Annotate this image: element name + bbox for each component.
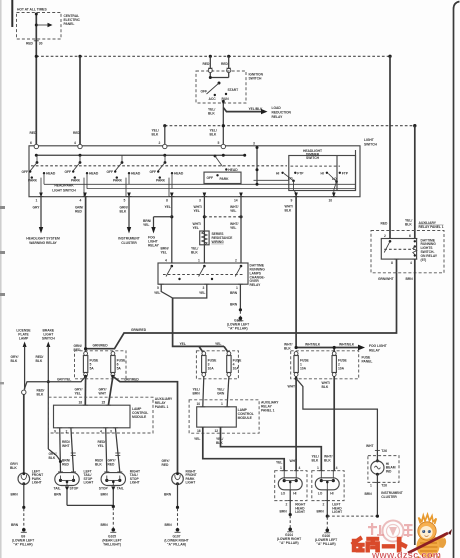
terminal 30 tick and RED label <box>26 41 43 46</box>
svg-text:YEL: YEL <box>180 342 186 346</box>
svg-text:TAILLIGHT): TAILLIGHT) <box>103 542 121 546</box>
switch S4 (OFF/PARK/HEAD) <box>150 155 184 196</box>
wire: GRN/BLK to instrument cluster <box>120 197 132 234</box>
relay pin 4 <box>410 259 417 265</box>
svg-text:RED: RED <box>221 62 229 66</box>
svg-text:PANEL: PANEL <box>362 360 373 364</box>
relay pin 6 <box>409 234 417 239</box>
fuse 3 (left low beam) <box>202 352 218 377</box>
svg-text:LIGHT: LIGHT <box>332 510 342 514</box>
svg-text:BLK: BLK <box>120 210 127 214</box>
svg-text:8: 8 <box>391 261 393 265</box>
left headlight bulb <box>315 466 339 496</box>
watermark: pink overlay characters <box>368 523 413 537</box>
svg-text:1: 1 <box>280 466 282 470</box>
svg-text:RELAY: RELAY <box>272 115 284 119</box>
svg-text:RED: RED <box>26 41 34 45</box>
fuse 6 (right tail) <box>111 352 126 377</box>
svg-text:3: 3 <box>253 142 255 146</box>
svg-text:2: 2 <box>66 430 68 434</box>
svg-text:RELAY: RELAY <box>148 244 160 248</box>
switch S2 (OFF/PARK/HEAD) <box>65 155 99 196</box>
watermark: www.dzsc.com <box>371 550 441 558</box>
fuse panel right dashed box <box>291 351 359 379</box>
svg-text:LIGHT: LIGHT <box>32 481 42 485</box>
svg-text:"A" PILLAR): "A" PILLAR) <box>279 541 298 545</box>
svg-text:10A: 10A <box>338 367 345 371</box>
DRL changeover relay internals <box>163 265 243 280</box>
svg-text:GRY/RED: GRY/RED <box>124 377 139 381</box>
label: IGNITION SWITCH <box>249 73 264 81</box>
svg-text:"A" PILLAR): "A" PILLAR) <box>228 327 247 331</box>
label: INSTRUMENT CLUSTER left <box>118 237 139 246</box>
svg-text:LIGHT: LIGHT <box>295 510 305 514</box>
svg-text:HEAD: HEAD <box>174 172 184 176</box>
wire: right page-edge wire <box>454 2 460 558</box>
svg-text:3: 3 <box>110 430 112 434</box>
ignition switch dashed box <box>196 71 246 103</box>
svg-text:SWITCH: SWITCH <box>306 156 320 160</box>
svg-text:1: 1 <box>221 402 223 406</box>
label: DAYTIME RUNNING LAMPS CHANGE-OVER RELAY <box>250 264 266 287</box>
svg-text:6: 6 <box>409 234 411 238</box>
label: AUXILIARY RELAY PANEL 1 top <box>419 221 444 229</box>
lamp control module left box <box>54 405 131 428</box>
svg-text:2: 2 <box>286 502 288 506</box>
label: AUXILIARY RELAY PANEL 1 right <box>261 400 279 412</box>
wire: branch to fog light relay <box>143 217 172 234</box>
lamp: right front park light <box>164 469 197 507</box>
svg-text:BLK: BLK <box>324 459 331 463</box>
svg-text:(97): (97) <box>421 258 427 262</box>
svg-text:BRN: BRN <box>365 492 373 496</box>
svg-text:LIGHT: LIGHT <box>84 481 94 485</box>
label: LIGHT SWITCH <box>364 138 378 146</box>
label: RIGHT HEAD LIGHT <box>295 503 305 515</box>
daytime running lights switch-on relay box <box>381 239 416 260</box>
svg-text:10: 10 <box>329 198 333 202</box>
svg-text:BRN: BRN <box>280 510 288 514</box>
wire: YEL/BLK long feed to DRL relay <box>405 126 415 239</box>
dashed ground link headlight to cluster <box>327 515 379 518</box>
svg-text:5A: 5A <box>117 367 122 371</box>
svg-text:FOG LIGHT: FOG LIGHT <box>369 344 387 348</box>
watermark: 维库一下 <box>352 537 407 552</box>
terminal circles on box top <box>30 141 226 149</box>
label: G9 lower left A pillar <box>12 534 34 546</box>
svg-text:16: 16 <box>197 429 201 433</box>
wire: WHT hi-beam indicator feed label T26 <box>366 444 387 453</box>
wire: tail lamps ground bus <box>67 505 116 532</box>
svg-text:BLK: BLK <box>37 392 44 396</box>
svg-text:YEL: YEL <box>194 437 200 441</box>
svg-text:BRN: BRN <box>54 492 62 496</box>
svg-text:5: 5 <box>218 141 220 145</box>
wire: branch to hi-beam indicator <box>296 379 377 451</box>
ignition switch internals <box>201 73 239 106</box>
label: FOG LIGHT RELAY left <box>148 236 160 248</box>
svg-text:RELAY PANEL 1: RELAY PANEL 1 <box>419 225 444 229</box>
svg-text:6: 6 <box>30 141 32 145</box>
resistor: series resistance wiring <box>200 231 209 245</box>
svg-text:WHT: WHT <box>366 444 373 448</box>
svg-text:MODULE: MODULE <box>238 416 253 420</box>
svg-text:RED: RED <box>62 462 70 466</box>
svg-text:LOAD: LOAD <box>272 106 282 110</box>
dimmer pole 2 <box>321 171 349 196</box>
wire labels at headlight HI terminals <box>290 455 333 463</box>
label: G100 lower left A pillar <box>227 319 249 331</box>
wire: RED feed to switch terminal 6 <box>30 56 81 146</box>
wire: YEL/BLK from RUN terminal <box>208 103 223 147</box>
switch S3 (OFF/PARK/HEAD) <box>107 155 141 196</box>
lamp control module right dashed panel <box>189 400 259 433</box>
svg-text:BRN: BRN <box>165 523 173 527</box>
svg-text:STOP: STOP <box>99 487 109 491</box>
svg-text:2: 2 <box>323 502 325 506</box>
right headlight dashed box <box>275 471 307 501</box>
svg-text:BRN: BRN <box>164 492 172 496</box>
svg-text:PARK: PARK <box>71 179 81 183</box>
wire: YEL module to right headlight LO <box>194 427 284 471</box>
lamp control module right box <box>197 407 237 427</box>
label: BRAKE LIGHT SWITCH <box>42 329 56 341</box>
label: G104 lower right A pillar <box>277 533 301 545</box>
svg-text:BRN: BRN <box>230 291 238 295</box>
wire: GRN/WHT relay output to light circuit <box>378 259 397 281</box>
svg-text:MODULE: MODULE <box>132 415 147 419</box>
svg-text:14: 14 <box>234 198 238 202</box>
svg-text:2: 2 <box>159 141 161 145</box>
wire: YEL/BLK drop to switch terminal <box>152 126 217 144</box>
svg-text:RED: RED <box>75 210 83 214</box>
svg-text:1: 1 <box>317 466 319 470</box>
svg-text:LIGHT: LIGHT <box>186 481 196 485</box>
svg-text:BRN: BRN <box>101 492 109 496</box>
svg-text:HI: HI <box>321 171 324 175</box>
svg-text:"A" PILLAR): "A" PILLAR) <box>316 542 335 546</box>
right headlight bulb <box>278 466 302 496</box>
wire: WHT from fuse 1 to right headlight HI <box>288 376 298 470</box>
svg-text:30: 30 <box>39 41 43 45</box>
label: G105 rear left taillight <box>102 534 121 546</box>
DRL changeover relay pin numbers top <box>165 259 244 264</box>
svg-text:TAIL: TAIL <box>117 487 124 491</box>
svg-text:RED: RED <box>30 131 38 135</box>
svg-text:GRN/RED: GRN/RED <box>131 328 147 332</box>
svg-text:CLUSTER: CLUSTER <box>121 241 137 245</box>
wire: GRY/YEL fuse5 to lamp module <box>75 376 86 405</box>
label: G107 lower right A pillar <box>164 534 188 546</box>
fuse 4 (right low beam) <box>227 352 242 377</box>
svg-text:1: 1 <box>370 484 372 488</box>
svg-text:PARK: PARK <box>113 179 123 183</box>
wire: heavy arrow to load reduction relay <box>223 107 267 115</box>
svg-text:LIGHT: LIGHT <box>364 138 374 142</box>
svg-text:WHT: WHT <box>99 392 106 396</box>
label: HEADLIGHT SYSTEM WARNING RELAY <box>26 237 60 246</box>
relay pin 2 <box>384 234 393 239</box>
label: LAMP CONTROL MODULE right <box>238 408 254 420</box>
svg-text:FTP: FTP <box>342 171 349 175</box>
label: AUXILIARY RELAY PANEL 1 left <box>155 397 173 409</box>
svg-text:BLK: BLK <box>405 223 412 227</box>
svg-text:T26: T26 <box>381 484 387 488</box>
svg-text:YEL: YEL <box>193 226 199 230</box>
svg-text:4: 4 <box>80 198 82 202</box>
label: DAYTIME RUNNING LIGHTS SWITCH-ON RELAY (97) <box>421 238 438 261</box>
wire: RED/WHT to left tail stop filament <box>62 428 76 472</box>
wire: battery feed inside panel <box>35 13 38 147</box>
node: dashed bus y125.7 <box>163 124 416 127</box>
svg-text:RELAY: RELAY <box>369 348 381 352</box>
svg-text:OFF: OFF <box>65 170 72 174</box>
fuse 1 (right high beam) <box>294 352 310 377</box>
wire: YEL/GRN fuse 4 to lamp control module <box>217 376 229 406</box>
svg-text:RED: RED <box>381 222 389 226</box>
dashed link between WHT/YEL wires <box>204 215 242 218</box>
svg-text:BLK: BLK <box>11 359 18 363</box>
headlight dimmer inner box <box>289 156 356 191</box>
wire: GRY/BLK down to left front park light <box>10 395 24 474</box>
svg-text:BLK: BLK <box>208 112 215 116</box>
head/park light switch box <box>29 146 360 197</box>
wire: GRY/WHT fuse6 to lamp module <box>99 375 115 405</box>
svg-text:BLK: BLK <box>49 456 56 460</box>
svg-text:"A" PILLAR): "A" PILLAR) <box>167 542 186 546</box>
right headlight ground lead <box>280 490 294 532</box>
dimmer pole 1 <box>276 171 304 196</box>
svg-text:PANEL: PANEL <box>64 22 75 26</box>
ground right park <box>165 506 181 533</box>
svg-text:LAMP: LAMP <box>19 337 29 341</box>
svg-text:5: 5 <box>124 198 126 202</box>
svg-text:1: 1 <box>236 286 238 290</box>
ground G100 from DRL changeover <box>230 284 243 321</box>
svg-text:10A: 10A <box>300 367 307 371</box>
svg-text:BRN: BRN <box>317 510 325 514</box>
svg-text:OFF: OFF <box>150 170 157 174</box>
wire: RED feed to ignition switch <box>203 56 211 69</box>
svg-text:TAIL: TAIL <box>54 487 61 491</box>
internal rail wires to dimmer <box>44 173 356 189</box>
wire: RED/YEL to right tail stop filament <box>98 428 121 472</box>
internal supply bus <box>35 154 246 157</box>
terminal: ignition connector circles <box>208 68 231 72</box>
wire: RED/BLK from brake light switch <box>36 342 51 450</box>
svg-text:OFF: OFF <box>22 170 29 174</box>
svg-text:BRN: BRN <box>11 492 19 496</box>
ground G9 left park <box>11 506 27 533</box>
svg-text:YEL: YEL <box>143 223 149 227</box>
wire: GRN/RED long to fuse panel <box>74 197 86 354</box>
label: LAMP CONTROL MODULE left <box>132 407 148 419</box>
svg-text:YEL: YEL <box>154 291 160 295</box>
daytime running lamps changeover relay box <box>158 263 248 284</box>
svg-text:LO: LO <box>288 177 293 181</box>
label: FOG LIGHT RELAY right <box>369 344 387 353</box>
svg-text:GRN/RED: GRN/RED <box>93 344 109 348</box>
svg-text:WARNING RELAY: WARNING RELAY <box>29 241 57 245</box>
svg-text:YEL/BLK: YEL/BLK <box>249 107 264 111</box>
wire: YEL down to headlight fuses <box>173 298 229 354</box>
fuse panel left dashed box <box>75 351 127 379</box>
svg-text:4: 4 <box>100 430 102 434</box>
svg-text:LIGHT SWITCH: LIGHT SWITCH <box>52 189 76 193</box>
left module top pins <box>79 400 111 405</box>
svg-text:BLK: BLK <box>284 346 291 350</box>
svg-text:WHT: WHT <box>290 459 297 463</box>
svg-text:HEAD: HEAD <box>89 172 99 176</box>
svg-text:START: START <box>228 88 239 92</box>
svg-text:10A: 10A <box>208 367 215 371</box>
svg-text:9: 9 <box>291 198 293 202</box>
svg-text:HI: HI <box>330 492 333 496</box>
svg-text:RED: RED <box>108 462 116 466</box>
wire: GRY to headlight warning relay <box>33 197 44 234</box>
svg-text:4: 4 <box>165 259 167 263</box>
svg-text:PARK: PARK <box>156 179 166 183</box>
wire: YEL to DRL changeover relay <box>161 197 174 264</box>
svg-text:BLK: BLK <box>152 133 159 137</box>
svg-text:FTP: FTP <box>297 171 304 175</box>
svg-text:WHT/BLK: WHT/BLK <box>305 343 321 347</box>
lamp: right tail/stop light <box>99 469 140 505</box>
label: SERIES RESISTANCE WIRING <box>212 232 234 244</box>
connector: license plate lamp splice <box>22 390 26 394</box>
hi beam indicator bulb <box>371 450 384 515</box>
svg-text:YEL: YEL <box>199 291 205 295</box>
svg-text:HEAD: HEAD <box>46 172 56 176</box>
svg-text:LO: LO <box>281 492 286 496</box>
label: INSTRUMENT CLUSTER <box>365 491 403 499</box>
svg-text:RELAY: RELAY <box>250 283 262 287</box>
svg-text:RED: RED <box>73 131 81 135</box>
left headlight dashed box <box>312 471 344 501</box>
label: HI BEAM IND <box>386 462 396 474</box>
svg-text:YEL: YEL <box>230 209 236 213</box>
svg-text:4: 4 <box>336 466 338 470</box>
svg-text:OFF: OFF <box>207 176 214 180</box>
wire: arrow branch inside panel <box>35 23 53 27</box>
wire: GRY/BLK + BRN/RED to left tail lamp <box>49 428 71 472</box>
left headlight ground lead <box>317 490 331 533</box>
svg-text:WIRING: WIRING <box>212 240 225 244</box>
svg-text:2: 2 <box>384 234 386 238</box>
svg-text:5: 5 <box>157 286 159 290</box>
switch S1 (OFF/PARK/HEAD) <box>22 155 56 196</box>
instrument cluster dashed box <box>368 456 399 483</box>
wire: WHT/YEL second to DRL relay <box>230 197 241 264</box>
svg-text:BLK: BLK <box>36 359 43 363</box>
wire: YEL/BRN fuse 3 to lamp control module <box>193 376 204 406</box>
wire: WHT/YEL through series resistance <box>191 197 206 264</box>
svg-text:BLK: BLK <box>10 466 17 470</box>
svg-text:HI: HI <box>276 171 279 175</box>
fuse 2 (left high beam) <box>332 352 348 377</box>
svg-text:4: 4 <box>299 466 301 470</box>
label: G106 lower left A pillar <box>315 534 337 546</box>
svg-text:SWITCH: SWITCH <box>249 77 263 81</box>
svg-text:8: 8 <box>166 198 168 202</box>
wire: WHT/BLK from fuse 2 to left headlight HI <box>322 376 335 470</box>
wire: brake feed elbow into left tail stop <box>48 449 62 463</box>
svg-text:10A: 10A <box>233 367 240 371</box>
svg-text:CLUSTER: CLUSTER <box>381 495 397 499</box>
node: main dashed bus y56 <box>35 55 392 58</box>
svg-text:3: 3 <box>199 198 201 202</box>
svg-text:OFF: OFF <box>201 90 208 94</box>
label: HEADLIGHT DIMMER SWITCH <box>303 149 322 160</box>
wire: YEL/BLK module to left headlight LO <box>216 427 321 471</box>
svg-text:15: 15 <box>102 400 106 404</box>
wire: WHT/BLK dimmer output long <box>284 197 296 351</box>
svg-text:GRY: GRY <box>33 206 41 210</box>
svg-text:GRN/WHT: GRN/WHT <box>378 277 394 281</box>
svg-text:BLK: BLK <box>95 462 102 466</box>
svg-text:REDUCTION: REDUCTION <box>272 111 292 115</box>
wire: WHT/BLK high beam feed rail <box>295 343 366 352</box>
svg-text:BLK: BLK <box>191 251 198 255</box>
svg-text:YEL: YEL <box>230 226 236 230</box>
svg-text:BLK: BLK <box>285 209 292 213</box>
cluster bottom pin <box>370 482 387 487</box>
wire: dimmer feed stub <box>253 142 259 186</box>
svg-text:BRN: BRN <box>101 523 109 527</box>
wire: BRN relay ground long <box>406 259 415 545</box>
svg-text:BLK: BLK <box>312 459 319 463</box>
watermark: red stamp <box>383 521 404 542</box>
label: LEFT HEAD LIGHT <box>332 503 342 515</box>
auxiliary relay panel 1 dashed box (top right) <box>371 231 444 273</box>
label: CENTRAL ELECTRIC PANEL <box>64 14 81 26</box>
svg-text:BLK: BLK <box>210 133 217 137</box>
svg-text:INSTRUMENT: INSTRUMENT <box>118 237 139 241</box>
fuse panel middle dashed box <box>196 351 238 379</box>
svg-text:PANEL 1: PANEL 1 <box>155 405 169 409</box>
svg-text:YEL: YEL <box>165 205 171 209</box>
wire: GRY/YEL tail feed to license connector <box>24 375 87 390</box>
svg-text:9: 9 <box>54 430 56 434</box>
label: HEAD/PARK LIGHT SWITCH <box>52 184 76 193</box>
dimmer linkage dashed <box>291 165 341 167</box>
wire: RED long feed to DRL relay <box>381 56 391 238</box>
svg-text:12: 12 <box>215 429 219 433</box>
label: LOAD REDUCTION RELAY <box>272 106 292 119</box>
wire: RED feed 2 to ignition switch <box>221 56 229 69</box>
svg-text:OFF: OFF <box>107 170 114 174</box>
svg-text:WHT: WHT <box>288 384 295 388</box>
lamp: left front park light <box>11 469 44 507</box>
svg-text:WHT/BLK: WHT/BLK <box>339 343 355 347</box>
svg-text:SWITCH: SWITCH <box>364 142 378 146</box>
wire: GRN/RED crossover long horizontal <box>84 273 397 351</box>
svg-text:GRY/YEL: GRY/YEL <box>57 377 71 381</box>
svg-text:YEL: YEL <box>194 209 200 213</box>
left module bottom pins <box>54 428 118 434</box>
relay pin 8 <box>391 259 399 265</box>
svg-text:GRN: GRN <box>217 392 225 396</box>
svg-text:YEL: YEL <box>215 342 221 346</box>
svg-text:5A: 5A <box>90 367 95 371</box>
svg-text:HEAD/PARK: HEAD/PARK <box>54 184 74 188</box>
label: FUSE PANEL <box>362 356 373 364</box>
page edge artifacts <box>0 0 12 558</box>
svg-text:BLK: BLK <box>216 441 223 445</box>
svg-text:HOT AT ALL TIMES: HOT AT ALL TIMES <box>17 8 47 12</box>
svg-text:SWITCH: SWITCH <box>42 337 56 341</box>
wire: GRY/RED to right front park light <box>113 376 178 473</box>
